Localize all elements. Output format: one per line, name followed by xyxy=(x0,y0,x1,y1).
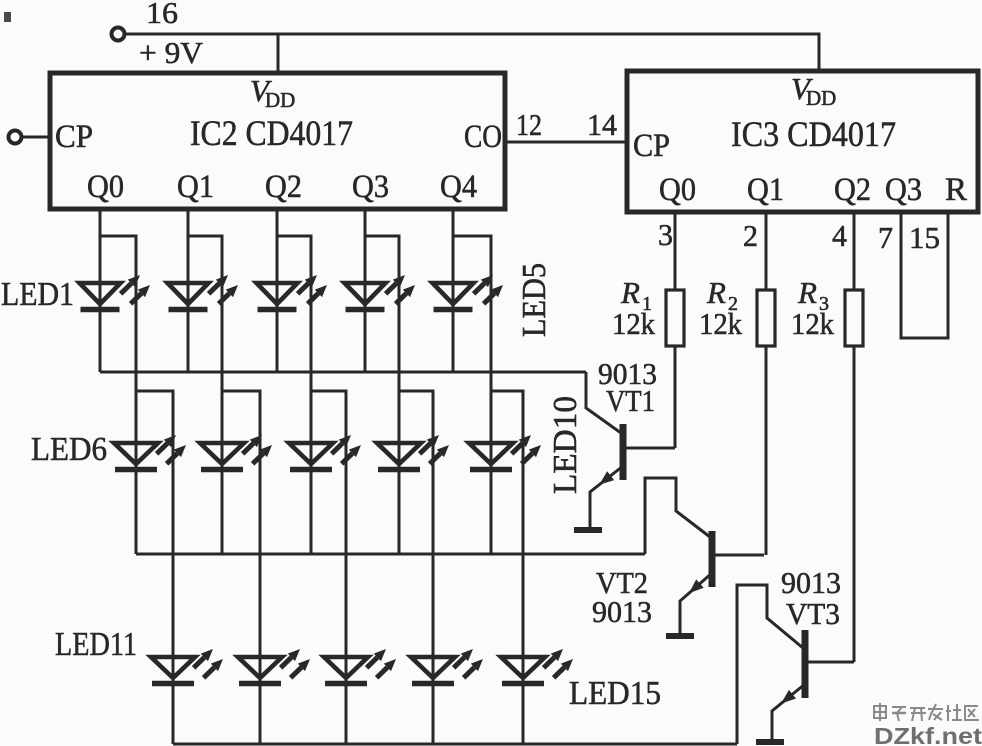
svg-text:Q0: Q0 xyxy=(659,172,696,208)
svg-text:Q4: Q4 xyxy=(440,169,477,205)
wire CO(12) to CP(14) xyxy=(505,141,627,144)
svg-text:Q0: Q0 xyxy=(87,169,124,205)
svg-text:DD: DD xyxy=(265,88,295,112)
svg-text:R: R xyxy=(797,275,817,310)
LED LED13 xyxy=(324,649,396,684)
svg-text:+ 9V: + 9V xyxy=(139,35,204,70)
svg-text:12k: 12k xyxy=(791,306,834,341)
svg-text:LED5: LED5 xyxy=(516,263,553,337)
LED LED11 xyxy=(151,649,223,684)
LED LED14 xyxy=(411,649,483,684)
wire branch to row2, column 2 xyxy=(188,236,222,554)
LED LED6 xyxy=(114,435,186,470)
wire Q1 column (IC2 pin down to row1 bus) xyxy=(187,209,190,372)
svg-text:LED1: LED1 xyxy=(1,276,74,313)
svg-text:DZkf.net: DZkf.net xyxy=(874,723,982,746)
svg-text:12: 12 xyxy=(516,107,542,142)
wire Q0 column (IC2 pin down to row1 bus) xyxy=(99,209,102,372)
wire Q3(7) to R(15) reset link xyxy=(901,212,948,338)
IC U2 (IC2 CD4017) xyxy=(50,73,505,209)
wire R3 bottom to VT3 base xyxy=(853,346,856,662)
svg-text:R: R xyxy=(620,275,640,310)
svg-text:Q3: Q3 xyxy=(885,172,922,208)
svg-text:9013: 9013 xyxy=(781,565,841,600)
wire branch to row2, column 1 xyxy=(100,236,136,554)
svg-text:Q2: Q2 xyxy=(265,169,302,205)
wire CP input xyxy=(22,136,50,139)
wire Q2 column (IC2 pin down to row1 bus) xyxy=(276,209,279,372)
transistor VT2 (Q2) (9013 NPN) xyxy=(645,478,764,634)
svg-text:12k: 12k xyxy=(699,306,742,341)
wire row1 cathode bus xyxy=(100,371,586,374)
LED LED1 xyxy=(80,275,151,310)
wire branch to row2, column 5 xyxy=(453,236,491,554)
svg-text:Q3: Q3 xyxy=(352,169,389,205)
svg-text:VT1: VT1 xyxy=(606,383,655,418)
svg-text:2: 2 xyxy=(743,218,758,253)
ground VT3 (Q3) emitter xyxy=(756,739,784,745)
power terminal +9V xyxy=(112,28,125,41)
svg-text:VT3: VT3 xyxy=(786,596,840,631)
ground VT1 (Q1) emitter xyxy=(574,527,602,533)
LED LED5 xyxy=(433,275,504,310)
resistor R1 12k xyxy=(666,290,684,346)
svg-text:R: R xyxy=(945,172,967,208)
wire branch to row2, column 4 xyxy=(365,236,399,554)
LED LED4 xyxy=(345,275,416,310)
transistor VT1 (Q1) (9013 NPN) xyxy=(586,372,675,528)
LED LED15 xyxy=(501,649,573,684)
ground VT2 (Q2) emitter xyxy=(666,633,694,639)
LED LED8 xyxy=(289,435,361,470)
wire IC3 pin to R1 top xyxy=(674,212,677,290)
svg-text:16: 16 xyxy=(146,0,178,30)
wire IC3 pin to R2 top xyxy=(765,212,768,290)
wire branch to row2, column 3 xyxy=(277,236,311,554)
svg-text:R: R xyxy=(706,275,726,310)
svg-text:3: 3 xyxy=(658,217,673,252)
svg-text:CO: CO xyxy=(464,119,502,155)
svg-text:Q2: Q2 xyxy=(834,172,871,208)
resistor R3 12k xyxy=(845,290,863,346)
svg-text:12k: 12k xyxy=(612,306,655,341)
LED LED12 xyxy=(238,649,310,684)
svg-text:LED11: LED11 xyxy=(55,626,137,663)
svg-text:7: 7 xyxy=(878,220,893,255)
svg-text:Q1: Q1 xyxy=(747,172,784,208)
wire Q4 column (IC2 pin down to row1 bus) xyxy=(452,209,455,372)
wire branch to row3, column 4 xyxy=(399,391,433,744)
wire R1 bottom to VT1 base xyxy=(674,346,677,448)
svg-text:LED15: LED15 xyxy=(569,675,661,712)
resistor R2 12k xyxy=(757,290,775,346)
svg-text:4: 4 xyxy=(832,218,847,253)
transistor VT3 (Q3) (9013 NPN) xyxy=(737,585,854,744)
wire VDD branch to IC2 xyxy=(277,34,280,73)
wire Q3 column (IC2 pin down to row1 bus) xyxy=(364,209,367,372)
svg-text:15: 15 xyxy=(909,220,940,255)
svg-text:14: 14 xyxy=(587,107,617,142)
wire row3 cathode bus xyxy=(173,743,737,746)
wire row2 cathode bus xyxy=(136,553,645,556)
wire R2 bottom to VT2 base xyxy=(765,346,768,555)
svg-text:LED10: LED10 xyxy=(547,396,584,494)
IC U3 (IC3 CD4017) xyxy=(627,71,978,212)
LED LED7 xyxy=(200,435,272,470)
wire branch to row3, column 1 xyxy=(136,391,173,744)
svg-text:IC3 CD4017: IC3 CD4017 xyxy=(731,114,896,154)
wire IC3 pin to R3 top xyxy=(853,212,856,290)
wire +9V rail to VDD pins xyxy=(125,34,819,73)
wire branch to row3, column 3 xyxy=(311,391,346,744)
svg-text:LED6: LED6 xyxy=(31,431,107,468)
wire branch to row3, column 2 xyxy=(222,391,260,744)
svg-text:Q1: Q1 xyxy=(177,169,214,205)
svg-text:IC2 CD4017: IC2 CD4017 xyxy=(190,113,353,153)
svg-text:CP: CP xyxy=(55,119,93,155)
svg-text:CP: CP xyxy=(633,128,670,164)
LED LED3 xyxy=(257,275,328,310)
svg-text:9013: 9013 xyxy=(592,594,652,629)
svg-text:DD: DD xyxy=(806,86,836,110)
LED LED9 xyxy=(377,435,449,470)
watermark 电子开发社区 (drawn strokes, CJK not available) xyxy=(874,703,979,721)
wire branch to row3, column 5 xyxy=(491,391,523,744)
LED LED10 xyxy=(469,435,541,470)
LED LED2 xyxy=(168,275,239,310)
terminal CP input xyxy=(9,131,22,144)
